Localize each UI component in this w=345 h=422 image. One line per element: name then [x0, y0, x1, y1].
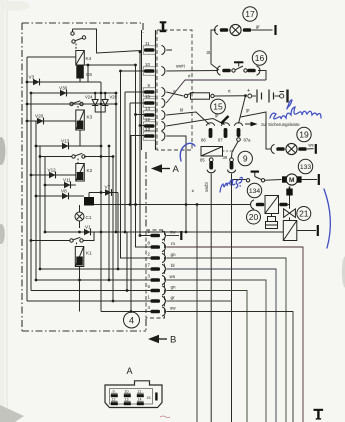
- svg-text:V30: V30: [59, 86, 68, 91]
- wire pin30 to switch: [232, 174, 246, 180]
- svg-text:K4: K4: [86, 56, 92, 61]
- wire y57 K4 feed: [27, 56, 76, 58]
- arrow A: [151, 164, 180, 175]
- svg-text:10: 10: [145, 62, 150, 67]
- wire y311 pin4 line: [101, 311, 151, 313]
- wire y146 V13 line: [36, 145, 101, 147]
- wire x135.5 relay-pin14-pin8: [136, 65, 151, 247]
- svg-text:V24: V24: [85, 95, 93, 100]
- wire lamp C1 leads: [79, 205, 81, 212]
- wire y156 K2 switch line: [40, 156, 72, 158]
- svg-text:V20: V20: [35, 114, 44, 119]
- handwriting note: [220, 177, 242, 192]
- relay K3: [76, 110, 93, 146]
- wire to fuse strip arrow: [241, 112, 272, 149]
- svg-text:12: 12: [112, 397, 116, 401]
- pin 15: [143, 94, 165, 108]
- svg-text:gn: gn: [171, 252, 177, 257]
- wire x186 drop: [185, 205, 187, 233]
- bold pin stroke 87: [221, 116, 229, 124]
- wire colour labels at bottom strip: [170, 230, 177, 311]
- wire y204 long line to valve: [84, 204, 251, 206]
- bus L4: [39, 146, 41, 269]
- pin 8: [148, 241, 166, 252]
- circled 21: [297, 207, 311, 221]
- wire y266 pin7 line: [40, 268, 151, 270]
- wire x116: [115, 93, 117, 232]
- relay K2: [76, 164, 93, 182]
- svg-text:ro: ro: [171, 241, 176, 246]
- relay coil box: [201, 147, 223, 157]
- armature lever: [232, 142, 238, 153]
- svg-text:gr: gr: [256, 24, 260, 29]
- svg-text:4: 4: [129, 316, 134, 326]
- svg-text:V3: V3: [29, 75, 35, 80]
- switch S1 (K1): [31, 232, 94, 247]
- connector strip I (top) : left rail: [141, 30, 143, 150]
- wire: [215, 95, 246, 97]
- bowtie valve 21: [284, 209, 296, 218]
- big I marker: [160, 21, 167, 32]
- big T marker: [314, 409, 324, 420]
- svg-text:9: 9: [113, 389, 115, 393]
- svg-text:V11: V11: [63, 178, 71, 183]
- switch 134: [246, 172, 264, 182]
- wire y104 K3 switch line: [27, 103, 116, 105]
- svg-text:V12: V12: [48, 168, 57, 173]
- wire gn pin2: [166, 258, 286, 422]
- arrow B: [148, 335, 176, 346]
- switch S3 (K3): [70, 101, 83, 110]
- pin 85: [200, 158, 215, 173]
- handwriting Schwung: [270, 107, 321, 119]
- wire pin85 down: [210, 174, 212, 422]
- circled 20: [247, 210, 261, 224]
- svg-text:sw: sw: [170, 306, 176, 311]
- svg-text:13: 13: [125, 397, 129, 401]
- wire y278 pin3 line: [36, 279, 151, 281]
- bus L3: [35, 121, 37, 280]
- svg-text:bl: bl: [180, 108, 183, 113]
- switch S2 (K2): [72, 153, 85, 163]
- pen arc left: [180, 143, 195, 161]
- motor 133: [265, 174, 319, 185]
- rt rail: [166, 74, 266, 104]
- svg-text:87a: 87a: [244, 138, 252, 143]
- heater block under valve 20: [266, 214, 278, 229]
- diode V13: [61, 139, 70, 150]
- contact: [184, 94, 187, 97]
- wire y65 relay to bundle: [84, 64, 135, 66]
- svg-text:V7: V7: [105, 185, 111, 190]
- svg-text:V25: V25: [110, 95, 118, 100]
- zener V24: [85, 93, 98, 109]
- wire loop to rt rail: [258, 71, 266, 81]
- wire y196 V8 line: [36, 195, 84, 197]
- circled 4: [124, 312, 140, 328]
- svg-text:14: 14: [145, 106, 150, 111]
- svg-text:+: +: [247, 88, 250, 94]
- socket13 drop: [166, 136, 186, 205]
- pin 2: [148, 252, 166, 263]
- svg-text:15: 15: [213, 102, 223, 112]
- svg-text:bl: bl: [206, 51, 211, 54]
- svg-text:19: 19: [299, 130, 309, 140]
- wire: [252, 29, 273, 31]
- diode V12: [48, 168, 57, 179]
- bus L1: [26, 57, 28, 301]
- diode V1: [84, 225, 91, 236]
- wire: [166, 92, 183, 96]
- pin 12: [143, 117, 165, 131]
- circled 16: [252, 51, 266, 65]
- svg-text:11: 11: [138, 389, 142, 393]
- wire y232 long line to valve2: [45, 231, 284, 233]
- wire y175 V12 line: [31, 174, 76, 176]
- pin 9: [143, 83, 165, 97]
- svg-text:A: A: [173, 164, 180, 175]
- pin 5: [148, 284, 166, 295]
- wire y290 pin5 line: [31, 290, 151, 292]
- wire ro pin8: [166, 247, 303, 422]
- pin 7: [148, 263, 166, 274]
- socket: [217, 66, 220, 75]
- feeder to pins 86/87: [166, 112, 224, 126]
- svg-text:sw/bl: sw/bl: [204, 182, 209, 192]
- socket: [257, 66, 260, 75]
- connector strip I pins with sockets: [143, 41, 172, 141]
- valve 20: [251, 196, 290, 214]
- svg-text:zur Sicherungsleiste: zur Sicherungsleiste: [261, 122, 300, 127]
- diode V11: [63, 178, 71, 189]
- svg-text:30: 30: [223, 155, 228, 160]
- svg-text:10: 10: [125, 389, 129, 393]
- svg-text:9: 9: [243, 154, 248, 164]
- svg-text:gr: gr: [246, 108, 250, 113]
- arrow zur Sicherungsleiste: [245, 122, 300, 127]
- svg-text:gn: gn: [171, 285, 177, 290]
- wire sw pin4: [166, 312, 293, 422]
- pin 87a: [234, 123, 251, 143]
- wire pin11 lamp feed: [211, 30, 216, 64]
- fuse 15 line: [166, 88, 250, 99]
- zener V25: [102, 93, 118, 109]
- wire y121 V20 line: [27, 120, 76, 122]
- gr feeder from battery to 87a: [239, 96, 246, 124]
- svg-text:15: 15: [147, 396, 151, 400]
- wire x127 pin12-pin5: [126, 232, 128, 291]
- diode V7: [105, 185, 112, 196]
- pin 3: [148, 274, 166, 285]
- wire x88: [87, 65, 89, 82]
- wire lamp drop: [211, 64, 219, 70]
- svg-text:bl: bl: [171, 263, 175, 268]
- svg-text:134: 134: [249, 188, 261, 195]
- diode V3: [29, 75, 40, 86]
- pin 11: [143, 41, 172, 55]
- lamp E17: [230, 24, 241, 35]
- svg-text:87: 87: [218, 138, 223, 143]
- bus L5: [44, 157, 46, 233]
- pin: [247, 69, 255, 73]
- circled 9: [238, 151, 252, 165]
- wire gn pin5: [166, 291, 247, 422]
- wire x96.5 top loop: [73, 29, 142, 53]
- svg-text:21: 21: [299, 209, 309, 219]
- svg-text:20: 20: [249, 212, 259, 222]
- pin 6: [148, 229, 166, 240]
- wire y300 pin1 line: [27, 300, 151, 302]
- battery: [248, 90, 288, 103]
- svg-text:133: 133: [300, 164, 312, 171]
- lamp E17 circuit: [206, 24, 276, 64]
- wire y185 V11 line: [45, 184, 76, 186]
- diode V30: [59, 86, 68, 97]
- bus R (x101): [100, 82, 102, 232]
- wire bl pin7: [166, 269, 276, 422]
- svg-text:V13: V13: [61, 139, 70, 144]
- circled 133: [298, 159, 312, 173]
- mech link: [223, 150, 235, 152]
- sockets dashed housing (top): [157, 30, 192, 150]
- diode V8: [61, 189, 69, 200]
- pin: [220, 28, 228, 32]
- svg-text:ws: ws: [170, 274, 176, 279]
- svg-text:11: 11: [145, 41, 150, 46]
- wire ws pin3: [166, 280, 266, 422]
- switch S16: [232, 69, 235, 72]
- solenoid valve 21 body: [283, 217, 318, 240]
- svg-text:12: 12: [145, 117, 150, 122]
- pin: [243, 28, 251, 32]
- wire gr pin1: [166, 300, 231, 302]
- svg-text:15: 15: [145, 94, 150, 99]
- coil C6: [76, 66, 92, 83]
- fuse: [191, 93, 210, 99]
- wire K1 coil bottom: [79, 267, 81, 312]
- pin 1: [148, 295, 166, 306]
- svg-text:K2: K2: [87, 168, 93, 173]
- wire y82 V3 line: [27, 81, 101, 83]
- pin 14: [143, 106, 165, 120]
- circled 19: [297, 127, 311, 141]
- connector strip pins (bottom group): [148, 229, 166, 316]
- svg-text:sw/rt: sw/rt: [176, 64, 186, 69]
- circled 15: [211, 99, 226, 114]
- svg-text:B: B: [170, 335, 176, 346]
- terminal: [274, 25, 276, 35]
- wire x131 pin13-pin4: [131, 136, 144, 312]
- svg-text:C6: C6: [86, 72, 92, 77]
- pin: [222, 69, 230, 73]
- pin 30: [223, 155, 236, 173]
- switch 16 line: [166, 62, 266, 80]
- svg-text:gr: gr: [171, 295, 176, 300]
- svg-text:16: 16: [255, 53, 265, 63]
- svg-text:13: 13: [145, 127, 150, 132]
- bottom strip dashed housing: [146, 230, 165, 318]
- lamp 19: [271, 143, 316, 155]
- svg-text:K1: K1: [86, 251, 92, 256]
- svg-text:14: 14: [138, 397, 142, 401]
- svg-text:gr: gr: [215, 113, 219, 118]
- plug above valve 21: [286, 187, 292, 209]
- socket: [215, 25, 218, 34]
- wire pin30 down: [231, 180, 233, 422]
- svg-text:17: 17: [245, 9, 255, 19]
- svg-text:V8: V8: [61, 189, 67, 194]
- pin 13: [143, 127, 165, 141]
- relay K4: [76, 51, 92, 66]
- switch S4 (top): [71, 29, 86, 51]
- zener tie wires: [95, 109, 105, 112]
- circled 134: [247, 183, 261, 197]
- svg-text:K3: K3: [87, 115, 93, 120]
- black module C: [84, 197, 94, 206]
- lamp C1: [75, 212, 92, 221]
- wire x120.5 pin10-pin2: [121, 71, 151, 258]
- pin 86: [201, 123, 215, 143]
- wire sw pin6: [166, 235, 179, 237]
- svg-text:85: 85: [200, 158, 205, 163]
- wire x197 down: [196, 205, 198, 422]
- pen arc right: [324, 189, 330, 248]
- wire y93 V30 line: [31, 92, 116, 94]
- pin 87: [218, 123, 230, 143]
- svg-text:V1: V1: [85, 225, 91, 230]
- svg-text:C1: C1: [86, 215, 92, 220]
- wire x118 V7-pin7: [117, 193, 119, 270]
- pin 10: [143, 62, 165, 76]
- svg-text:86: 86: [201, 138, 206, 143]
- wire y196 V7 line: [89, 192, 118, 194]
- pin 4: [148, 305, 166, 316]
- svg-text:M: M: [289, 177, 295, 184]
- svg-text:ws: ws: [309, 143, 314, 148]
- diode V20: [35, 114, 44, 125]
- control unit dashed border: [22, 23, 146, 331]
- relay K1: [75, 247, 92, 267]
- bus L2: [30, 93, 32, 291]
- wire x140 pin11line-pin6: [140, 52, 151, 236]
- circled 17: [243, 7, 257, 21]
- wire sw/rt: [166, 70, 218, 73]
- svg-text:A: A: [127, 366, 133, 376]
